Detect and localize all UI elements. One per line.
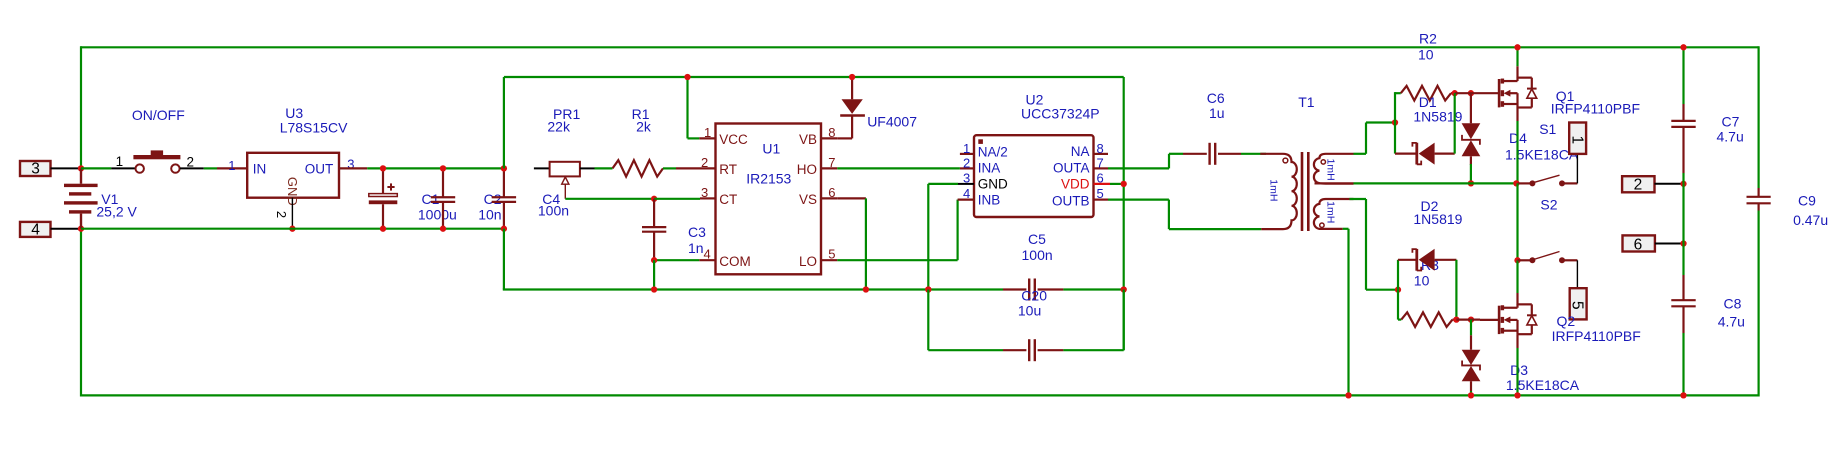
node junction sec-bot rail [1345, 392, 1351, 398]
pin name IN [253, 161, 267, 176]
pin name LO [799, 254, 817, 269]
potentiometer PR1 [534, 162, 595, 199]
label U2 [1026, 91, 1044, 107]
terminal tag 4 [20, 221, 81, 238]
label 22k [547, 118, 571, 134]
pin 8 stub VB [821, 137, 837, 139]
pin 1 of switch [116, 154, 124, 169]
pin 5 of U2 [1097, 186, 1104, 201]
node junction VS/COM rail [863, 286, 869, 292]
svg-text:1: 1 [228, 158, 235, 173]
diode D1 1N5819 [1395, 143, 1455, 165]
TVS diode D4 [1462, 93, 1481, 183]
svg-text:IR2153: IR2153 [746, 170, 791, 186]
regulator U3 box [247, 153, 339, 198]
label 100n (C5) [1022, 247, 1053, 263]
terminal tag 3 [20, 161, 81, 178]
pin 7 stub HO [821, 167, 837, 169]
transistor Q1 IRFP4110PBF [1480, 78, 1537, 108]
svg-text:C3: C3 [688, 224, 706, 240]
pin name RT [719, 162, 737, 177]
terminal jumper 5 [1568, 288, 1586, 319]
pin name VDD [1061, 177, 1090, 192]
pin 5 of U1 [828, 247, 835, 262]
terminal tag 2 [1622, 176, 1683, 194]
label PR1 [553, 106, 580, 122]
svg-text:IRFP4110PBF: IRFP4110PBF [1551, 101, 1640, 117]
pin name VCC [719, 132, 748, 147]
capacitor C6 [1183, 143, 1241, 165]
svg-text:IN: IN [253, 161, 267, 176]
svg-text:CT: CT [719, 192, 737, 207]
node junction tag3/battery+ [78, 165, 84, 171]
svg-text:IRFP4110PBF: IRFP4110PBF [1552, 328, 1641, 344]
node junction VDD [1121, 181, 1127, 187]
node junction COM/C5 left [925, 286, 931, 292]
pin 3 of U2 [963, 170, 970, 185]
terminal tag 6 [1623, 235, 1684, 253]
svg-text:C5: C5 [1028, 231, 1046, 247]
svg-text:1N5819: 1N5819 [1413, 211, 1462, 227]
node junction C5 right edge [1121, 286, 1127, 292]
node junction U2 GND rail [925, 286, 931, 292]
svg-text:7: 7 [1097, 155, 1104, 170]
label 0.47u (C9) [1793, 212, 1828, 228]
svg-text:OUTB: OUTB [1052, 193, 1090, 208]
label IRFP4110PBF (Q2) [1552, 328, 1641, 344]
svg-text:UCC37324P: UCC37324P [1021, 106, 1100, 122]
wire S2 to jumper 5 [1576, 260, 1578, 288]
TVS diode D3 [1462, 320, 1481, 396]
svg-text:C7: C7 [1722, 113, 1740, 129]
wire outer bottom rail GND [81, 394, 1759, 396]
svg-text:4: 4 [31, 221, 40, 238]
svg-text:5: 5 [828, 247, 835, 262]
transformer T1 core [1302, 152, 1308, 231]
svg-text:4: 4 [704, 247, 711, 262]
svg-text:7: 7 [828, 155, 835, 170]
capacitor C5 [1003, 279, 1124, 301]
label Q1 [1556, 88, 1575, 104]
svg-text:Q2: Q2 [1557, 313, 1576, 329]
svg-text:8: 8 [828, 125, 835, 140]
svg-text:1: 1 [963, 141, 970, 156]
label 1000u [418, 206, 457, 222]
wire inner left edge upper [503, 77, 505, 168]
wire junction to CT pin [654, 197, 715, 200]
label D4 [1509, 130, 1527, 146]
node junction C4 top [501, 165, 507, 171]
wire Q1 source to S2 node [1516, 183, 1518, 260]
svg-text:1mH: 1mH [1324, 159, 1336, 181]
svg-text:2: 2 [963, 155, 970, 170]
svg-text:S1: S1 [1539, 121, 1556, 137]
node junction tag6/C8 [1680, 240, 1686, 246]
label C9 [1798, 192, 1816, 208]
pin name COM [719, 254, 751, 269]
label IRFP4110PBF (Q1) [1551, 101, 1640, 117]
pin name VS [799, 192, 817, 207]
svg-text:5: 5 [1097, 186, 1104, 201]
svg-text:6: 6 [1634, 236, 1643, 253]
wire C3 node to COM rail [653, 260, 655, 289]
wire LO to INB [837, 200, 974, 261]
label R1 [632, 106, 650, 122]
svg-text:INB: INB [978, 192, 1001, 207]
label R3 [1421, 257, 1439, 273]
node junction C1 top [380, 165, 386, 171]
node junction C2 top [440, 165, 446, 171]
svg-text:NA: NA [1071, 144, 1090, 159]
capacitor C4 [492, 168, 516, 228]
IC U1 box [716, 124, 822, 275]
label U1 [762, 140, 780, 156]
pin 6 of U2 [1097, 170, 1104, 185]
resistor R1 [595, 160, 716, 176]
node junction R2/D4 [1468, 90, 1474, 96]
svg-text:VCC: VCC [719, 132, 748, 147]
svg-text:2k: 2k [636, 118, 652, 134]
transformer T1 secondary top polarity dot [1321, 160, 1325, 164]
pin name HO [797, 162, 817, 177]
wire switch to U3 IN [204, 167, 247, 169]
wire D1 right up [1454, 93, 1456, 153]
label C20 [1021, 287, 1047, 303]
wire PR1 wiper to CT [565, 198, 654, 200]
wire outer right edge lower [1757, 211, 1759, 397]
pin name NA/2 [978, 145, 1008, 160]
wire OUTB jog [1108, 200, 1261, 230]
svg-text:C20: C20 [1021, 287, 1047, 303]
transformer T1 secondary top winding [1314, 154, 1354, 184]
svg-text:S2: S2 [1540, 196, 1557, 212]
svg-text:R2: R2 [1419, 30, 1437, 46]
diode UF4007 [837, 77, 865, 138]
switch S2 [1518, 252, 1578, 264]
svg-text:VS: VS [799, 192, 817, 207]
wire outer left edge lower [80, 229, 82, 397]
svg-text:0.47u: 0.47u [1793, 212, 1828, 228]
node junction source rail / S1 [1513, 180, 1519, 186]
label 10n [478, 206, 501, 222]
wire VCC to 15V rail [688, 77, 700, 138]
pin name GND of U2 [978, 177, 1008, 192]
wire outer top rail +25V [81, 46, 1759, 48]
pin 5 stub LO [821, 259, 837, 261]
node junction tag4/battery- [78, 226, 84, 232]
resistor R2 [1401, 86, 1455, 101]
label UF4007 [867, 113, 917, 129]
svg-text:5: 5 [1568, 301, 1585, 310]
label 1.5KE18CA (D3) [1506, 377, 1580, 393]
label D1 [1419, 94, 1437, 110]
pin 4 of U1 [704, 247, 711, 262]
label 1.5KE18CA (D4) [1505, 147, 1579, 163]
pin 3 stub GND [958, 183, 974, 185]
label V1 [101, 191, 118, 207]
label 1u (C6) [1209, 105, 1225, 121]
svg-text:OUTA: OUTA [1053, 160, 1090, 175]
svg-text:6: 6 [1097, 170, 1104, 185]
label 1mH secondary top [1324, 159, 1336, 181]
svg-text:D3: D3 [1510, 362, 1528, 378]
node junction gate feed top [1392, 119, 1398, 125]
svg-text:100n: 100n [538, 203, 569, 219]
wire Q1 drain to top rail [1516, 47, 1518, 78]
pin name CT [719, 192, 737, 207]
node junction R2/D1 right [1452, 90, 1458, 96]
svg-text:U3: U3 [285, 105, 303, 121]
label S1 [1539, 121, 1556, 137]
label 1n [688, 240, 704, 256]
node junction C1 bottom [380, 226, 386, 232]
wire R2 to Q1 gate [1455, 92, 1480, 94]
IC U2 box [974, 135, 1094, 217]
node junction C3/COM [651, 257, 657, 263]
wire outer right edge upper [1757, 46, 1759, 188]
svg-text:1u: 1u [1209, 105, 1225, 121]
label 100n [538, 203, 569, 219]
node junction R3/D3 [1468, 316, 1474, 322]
wire R3 to Q2 gate [1456, 319, 1480, 321]
pin name NA [1071, 144, 1090, 159]
diode D2 1N5819 [1398, 249, 1456, 271]
node junction gate feed bottom [1395, 287, 1401, 293]
wire inner left edge lower [503, 229, 505, 290]
label C7 [1722, 113, 1740, 129]
wire VDD to 15V edge [1110, 183, 1124, 185]
wire sec-bot bottom lead to rail [1343, 229, 1349, 396]
pin 8 stub NA [1094, 153, 1109, 155]
label 10u (C20) [1018, 303, 1041, 319]
label 1mH primary [1267, 179, 1279, 201]
label 4.7u (C7) [1717, 129, 1744, 145]
pin 2 of switch [187, 155, 195, 170]
label R2 [1419, 30, 1437, 46]
label 2k [636, 118, 652, 134]
wire R2 left lead [1395, 92, 1401, 94]
pin 6 stub VDD [1094, 183, 1111, 185]
label 1N5819 (D1) [1413, 108, 1462, 124]
pin 8 of U1 [828, 125, 835, 140]
wire D2 left vertical [1397, 260, 1399, 290]
svg-text:C6: C6 [1207, 90, 1225, 106]
transformer T1 secondary bottom polarity dot [1320, 223, 1324, 227]
label D2 [1421, 198, 1439, 214]
battery V1 [64, 168, 98, 228]
svg-text:UF4007: UF4007 [867, 113, 917, 129]
wire inner bottom rail COM [503, 288, 1003, 290]
label C6 [1207, 90, 1225, 106]
node junction COM rail [651, 286, 657, 292]
node junction tag2/C7 [1680, 181, 1686, 187]
svg-text:10: 10 [1418, 47, 1434, 63]
pin name GND rotated [285, 177, 300, 206]
node junction C2 bottom [440, 226, 446, 232]
svg-text:C9: C9 [1798, 192, 1816, 208]
wire R3 left vertical [1398, 290, 1401, 320]
wire sec-top-top jog [1354, 123, 1396, 154]
svg-text:1.5KE18CA: 1.5KE18CA [1505, 147, 1579, 163]
wire Q2 source to bottom rail [1516, 334, 1518, 395]
transformer T1 secondary bottom winding [1314, 199, 1354, 229]
svg-text:4.7u: 4.7u [1718, 314, 1745, 330]
label C2 [484, 191, 502, 207]
pin name OUTA [1053, 160, 1090, 175]
svg-text:3: 3 [701, 185, 708, 200]
label UCC37324P [1021, 106, 1100, 122]
pin 8 of U2 [1097, 141, 1104, 156]
svg-text:NA/2: NA/2 [978, 145, 1008, 160]
pin 1 stub VCC [699, 137, 715, 139]
svg-text:4: 4 [963, 186, 970, 201]
capacitor C2 [431, 168, 455, 228]
svg-text:8: 8 [1097, 141, 1104, 156]
wire OUTA jog [1108, 154, 1183, 169]
svg-text:INA: INA [978, 160, 1001, 175]
wire sec-bot-top jog [1349, 199, 1398, 290]
capacitor C20 loop [928, 290, 1123, 362]
svg-text:1n: 1n [688, 240, 704, 256]
wire U2 GND to COM rail [928, 184, 958, 290]
svg-text:1: 1 [1568, 135, 1585, 144]
wire S2 node to Q2 drain [1516, 260, 1518, 305]
wire ground rail left [81, 228, 504, 230]
node junction D4 source rail [1468, 180, 1474, 186]
pin 1 of U3 [228, 158, 235, 173]
pin name OUTB [1052, 193, 1090, 208]
node junction wiper/C3/CT [651, 196, 657, 202]
svg-text:2: 2 [701, 155, 708, 170]
wire gate feed vertical top [1394, 92, 1396, 154]
svg-text:10: 10 [1414, 273, 1430, 289]
label D3 [1510, 362, 1528, 378]
label C5 [1028, 231, 1046, 247]
svg-text:2: 2 [1634, 177, 1643, 194]
label C8 [1724, 296, 1742, 312]
wire D2 right down [1455, 260, 1457, 320]
node junction S2 [1514, 257, 1520, 263]
svg-text:HO: HO [797, 162, 817, 177]
wire S1 to jumper 1 [1576, 154, 1578, 184]
svg-text:C1: C1 [422, 191, 440, 207]
svg-text:1: 1 [116, 154, 124, 169]
svg-text:COM: COM [719, 254, 751, 269]
pin 2 stub INA [960, 167, 974, 169]
pin 1 marker of U2 [978, 139, 983, 144]
label 25,2 V [96, 204, 137, 220]
label IR2153 [746, 170, 791, 186]
label Q2 [1557, 313, 1576, 329]
pin name INA [978, 160, 1001, 175]
switch SW1 ON/OFF [111, 150, 204, 172]
label L78S15CV [280, 120, 348, 136]
pin 1 of U1 [704, 125, 711, 140]
pin name INB [978, 192, 1001, 207]
svg-text:6: 6 [828, 185, 835, 200]
label 1mH secondary bottom [1325, 201, 1337, 223]
wire inner top rail 15V [504, 76, 1124, 78]
pin 1 stub NA/2 [960, 153, 974, 155]
label U3 [285, 105, 303, 121]
label C4 [542, 191, 560, 207]
svg-text:VDD: VDD [1061, 177, 1090, 192]
node junction VCC rail [684, 74, 690, 80]
pin name VB [799, 132, 817, 147]
node junction UF4007 anode [849, 74, 855, 80]
pin 2 of U3 rotated [274, 211, 289, 218]
pin 3 of U1 [701, 185, 708, 200]
svg-text:1mH: 1mH [1325, 201, 1337, 223]
svg-text:22k: 22k [547, 118, 571, 134]
wire VS down to COM rail [837, 198, 866, 289]
wire tag2 node to tag6 node [1682, 184, 1684, 244]
wire U3 OUT [339, 167, 504, 169]
node junction Q1 drain rail [1514, 44, 1520, 50]
pin 4 stub COM [699, 259, 715, 261]
wire battery+ to switch [81, 167, 111, 169]
svg-text:2: 2 [187, 155, 195, 170]
svg-text:OUT: OUT [305, 161, 334, 176]
pin 5 stub OUTB [1094, 199, 1109, 201]
pin 1 of U2 [963, 141, 970, 156]
svg-text:LO: LO [799, 254, 817, 269]
svg-text:3: 3 [963, 170, 970, 185]
svg-text:1000u: 1000u [418, 206, 457, 222]
svg-text:T1: T1 [1298, 94, 1315, 110]
node junction C7 top rail [1680, 44, 1686, 50]
label C1 [422, 191, 440, 207]
wire HO to INA [837, 167, 960, 169]
svg-text:GND: GND [978, 177, 1008, 192]
wire outer left edge upper [80, 46, 82, 168]
capacitor C8 [1671, 244, 1695, 396]
wire inner right edge [1123, 77, 1125, 350]
svg-text:10n: 10n [478, 206, 501, 222]
terminal jumper 1 [1568, 123, 1586, 154]
svg-text:1mH: 1mH [1267, 179, 1279, 201]
node junction D3 bottom rail [1468, 392, 1474, 398]
label C3 [688, 224, 706, 240]
svg-text:1: 1 [704, 125, 711, 140]
pin name OUT [305, 161, 334, 176]
wire C6 to primary top [1241, 153, 1266, 155]
capacitor C3 [642, 199, 666, 260]
label ON/OFF [132, 107, 185, 123]
svg-text:2: 2 [274, 211, 289, 218]
label 10 (R3) [1414, 273, 1430, 289]
label T1 [1298, 94, 1315, 110]
resistor R3 [1401, 312, 1456, 327]
wire COM to C3 node [655, 259, 699, 261]
pin 7 of U2 [1097, 155, 1104, 170]
pin 4 of U2 [963, 186, 970, 201]
pin 3 of U3 [347, 156, 354, 171]
switch S1 [1518, 175, 1578, 186]
pin 2 of U1 [701, 155, 708, 170]
label S2 [1540, 196, 1557, 212]
node junction Q2 source rail [1514, 392, 1520, 398]
transformer T1 primary winding [1260, 154, 1297, 229]
svg-text:3: 3 [31, 161, 40, 178]
svg-text:ON/OFF: ON/OFF [132, 107, 185, 123]
pin 7 stub OUTA [1094, 167, 1109, 169]
capacitor C1 (electrolytic) [369, 168, 398, 228]
svg-text:100n: 100n [1022, 247, 1053, 263]
transformer T1 primary polarity dot [1283, 158, 1288, 163]
node junction U3 GND [289, 226, 295, 232]
node junction R3/D2 right [1453, 316, 1459, 322]
